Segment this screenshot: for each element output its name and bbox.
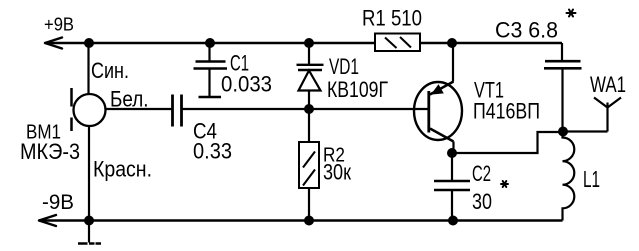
transistor VT1 [414,43,462,153]
junction top rail at C1 [205,38,215,48]
junction collector node [447,148,457,158]
svg-text:30: 30 [472,189,492,214]
junction bottom rail at C2 [448,216,458,226]
microphone BM1 [72,88,106,131]
junction top rail at R1/emitter [447,38,457,48]
svg-text:-9В: -9В [42,191,74,214]
svg-text:0.033: 0.033 [221,72,272,97]
capacitor C2 [434,153,470,221]
varicap diode VD1 [297,43,324,109]
svg-text:WA1: WA1 [590,72,626,97]
svg-text:МКЭ-3: МКЭ-3 [20,139,80,164]
svg-text:L1: L1 [583,166,600,192]
junction bottom rail at ground [84,216,94,226]
wire C4 to transistor base [182,108,429,110]
svg-text:30к: 30к [323,160,351,185]
asterisk C3 [567,10,576,17]
svg-text:Бел.: Бел. [110,87,149,112]
capacitor C1 [194,43,228,97]
+9V arrow [45,38,62,49]
svg-text:C3 6.8: C3 6.8 [495,18,558,43]
ground [78,221,101,244]
svg-text:+9В: +9В [44,15,74,35]
wire mic top lead [87,43,89,95]
wire mic output to C4 [106,108,173,110]
junction top rail at VD1 [304,38,314,48]
svg-text:Красн.: Красн. [93,157,152,182]
svg-text:КВ109Г: КВ109Г [327,77,388,102]
junction top rail at mic [84,38,94,48]
inductor L1 [563,132,575,221]
svg-text:Син.: Син. [91,58,129,83]
antenna WA1 [563,98,621,132]
resistor R1 [375,34,420,52]
capacitor C4 [173,95,182,127]
svg-text:П416ВП: П416ВП [473,99,540,124]
junction signal node at VD1/R2 [304,104,314,114]
wire collector to tank [452,132,563,153]
svg-text:C2: C2 [472,161,491,186]
wire top rail right of R1 [420,42,562,44]
capacitor C3 [544,43,582,132]
junction tank node at C3/L1 [558,127,568,137]
wire mic bottom lead [88,126,90,221]
wire bottom rail [39,219,563,221]
svg-text:VD1: VD1 [329,54,359,79]
svg-text:0.33: 0.33 [193,139,232,164]
resistor R2 [299,109,319,221]
asterisk C2 [501,181,508,187]
junction bottom rail at R2 [304,216,314,226]
svg-text:R1 510: R1 510 [362,6,422,31]
-9V arrow [39,215,56,226]
wire top rail left of R1 [45,42,375,44]
